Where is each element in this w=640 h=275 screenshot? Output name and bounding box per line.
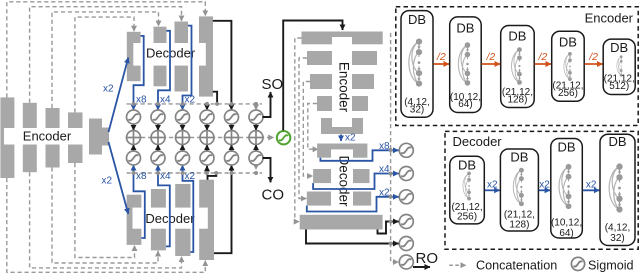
svg-text:x2: x2 [103, 84, 114, 95]
black wire B4 top to concat row [208, 174, 217, 180]
svg-text:x8: x8 [136, 171, 147, 182]
svg-text:32): 32) [610, 233, 624, 244]
svg-text:x2: x2 [102, 176, 113, 187]
DB encoder panel border [396, 7, 638, 126]
top decoder bar D3 [175, 22, 189, 92]
DB block E3 [501, 26, 535, 108]
svg-text:DB: DB [608, 134, 626, 149]
net2 encoder bar 2 [307, 51, 377, 65]
svg-text:128): 128) [509, 219, 529, 230]
net2 encoder bar 1 [302, 32, 383, 45]
encoder label box [4, 128, 89, 145]
/2 downsample arrow 1 [434, 63, 450, 65]
net2 skip connection enc3 to dec bar2 [303, 82, 312, 177]
DB block E2 [450, 17, 482, 113]
svg-text:DB: DB [508, 29, 526, 44]
CO output wire [263, 158, 271, 182]
DB block F4 [600, 134, 635, 246]
skip connection enc3 to top decoder D2 [52, 12, 159, 108]
dashed concat wire bottom row [127, 172, 262, 174]
junction dots bottom concat row [132, 171, 259, 175]
svg-text:DB: DB [610, 40, 628, 55]
svg-text:DB: DB [558, 139, 576, 154]
svg-text:/2: /2 [538, 51, 548, 63]
DB block E5 [603, 39, 635, 94]
top decoder label box [133, 43, 206, 66]
DB decoder panel border [445, 131, 638, 249]
encoder bar e3 [46, 108, 60, 168]
svg-text:x2: x2 [487, 179, 498, 190]
svg-text:x4: x4 [160, 171, 171, 182]
svg-text:x8: x8 [136, 95, 147, 106]
svg-text:512): 512) [609, 81, 629, 92]
blue wire x2 from D3 [183, 26, 192, 110]
green node output wire to network2 [283, 21, 342, 131]
svg-text:RO: RO [416, 250, 439, 267]
net2 output sigmoid circles [399, 143, 413, 157]
DB block F3 [551, 139, 583, 239]
svg-text:CO: CO [262, 187, 285, 204]
skip connection enc4 to bottom decoder B1 [75, 163, 135, 258]
net2 decoder bar 3 [307, 192, 371, 206]
blue wire x8 from B1 [134, 165, 145, 238]
dashed concat wire top row [127, 103, 262, 105]
net2 concat dashed vertical wire [391, 33, 399, 262]
skip connection enc2 to top decoder D3 [30, 7, 182, 103]
black wire D4 bottom to concat row [213, 92, 217, 103]
svg-text:Encoder: Encoder [337, 62, 352, 113]
net2 decoder bar 1 [317, 144, 367, 158]
green sigmoid node [277, 131, 290, 144]
net2 decoder bar 2 [313, 169, 369, 183]
svg-text:x2: x2 [185, 95, 196, 106]
svg-text:DB: DB [510, 150, 528, 165]
bottom decoder label box [133, 208, 208, 229]
/2 downsample arrow 3 [535, 63, 551, 65]
DB block F2 [500, 149, 538, 231]
DB block E4 [552, 31, 585, 101]
svg-text:Decoder: Decoder [453, 134, 503, 149]
skip connection enc2 to bottom decoder B3 [30, 172, 182, 268]
svg-text:32): 32) [410, 104, 424, 115]
encoder bar e4 [68, 112, 83, 163]
svg-text:x4: x4 [160, 95, 171, 106]
svg-text:/2: /2 [588, 51, 598, 63]
feed arrow column6 top [255, 104, 257, 110]
x2 upsample arrow 1 [485, 189, 500, 191]
svg-text:x2: x2 [379, 188, 390, 199]
net2 encoder bar 5 [321, 118, 363, 134]
net2 skip connection enc1 to dec bar4 [295, 38, 302, 222]
svg-text:x4: x4 [379, 164, 390, 175]
encoder bar e5 [89, 119, 102, 155]
legend concatenation arrow [449, 264, 466, 266]
svg-text:x2: x2 [345, 133, 356, 144]
bottom decoder bar B4 [199, 180, 214, 260]
/2 downsample arrow 2 [482, 63, 500, 65]
svg-text:DB: DB [408, 12, 426, 27]
RO output arrow [413, 266, 430, 268]
/2 downsample arrow 4 [585, 63, 603, 65]
svg-text:64): 64) [559, 228, 573, 239]
x2 upsample arrow 3 [583, 189, 600, 191]
net2 black wire dec bar4 right to circle [378, 222, 399, 234]
bottom decoder bar B1 [127, 195, 142, 245]
net2 skip connection enc4 to dec bar1 [308, 104, 318, 150]
svg-text:256): 256) [558, 88, 578, 99]
feed arrow column4 bottom [206, 166, 208, 173]
svg-text:64): 64) [458, 99, 472, 110]
net2 encoder bar 3 [310, 74, 374, 89]
svg-text:Concatenation: Concatenation [476, 259, 557, 273]
svg-text:x8: x8 [379, 141, 390, 152]
net2 black wire dec bar4 bottom to circle [306, 230, 399, 244]
net2 blue wire x4 from dec bar2 [313, 174, 398, 190]
svg-text:DB: DB [456, 21, 474, 36]
legend sigmoid icon [571, 257, 584, 270]
net2 skip connection enc2 to dec bar3 [299, 58, 307, 199]
blue wire x2 from B3 [183, 165, 194, 252]
svg-text:/2: /2 [486, 51, 496, 63]
svg-text:DB: DB [458, 157, 476, 172]
svg-text:Decoder: Decoder [337, 155, 352, 207]
skip connection enc1 to top decoder D4 [7, 2, 206, 98]
black wire D4 top to column5 [213, 21, 232, 110]
SO output wire [263, 92, 271, 117]
encoder output tab [102, 128, 109, 146]
net2 encoder label strip [332, 37, 352, 127]
svg-text:/2: /2 [436, 51, 446, 63]
sigmoid circles top row [127, 110, 141, 124]
net2 decoder label strip [331, 149, 353, 213]
encoder bar e1 [0, 97, 14, 178]
blue wire x8 from D1 [134, 36, 144, 110]
bottom decoder bar B3 [175, 184, 190, 256]
net2 upsample x2 arrow [340, 135, 342, 142]
feed arrow column4 top [206, 104, 208, 110]
skip connection enc3 to bottom decoder B2 [52, 168, 158, 264]
bottom decoder bar B2 [151, 189, 166, 250]
DB block F1 [450, 156, 485, 224]
svg-text:x2: x2 [185, 171, 196, 182]
svg-text:Decoder: Decoder [146, 45, 196, 60]
net2 junction dots [389, 148, 393, 246]
svg-text:SO: SO [262, 76, 284, 93]
dashed concat wire plus row [127, 137, 274, 139]
blue wire x4 from B2 [158, 165, 170, 246]
sigmoid circles bottom row [127, 151, 141, 165]
inter-row arrows sigmoid to plus [134, 124, 257, 131]
plus circles row [126, 130, 141, 145]
net2 decoder bar 4 [300, 215, 383, 230]
upsample x2 wire to top decoder [109, 58, 129, 133]
svg-text:Sigmoid: Sigmoid [588, 259, 634, 273]
skip connection enc1 to bottom decoder B4 [7, 178, 206, 272]
net2 blue wire x2 from dec bar3 [307, 197, 399, 212]
svg-text:Encoder: Encoder [585, 11, 634, 26]
top decoder bar D4 [199, 16, 213, 96]
svg-text:DB: DB [559, 34, 577, 49]
x2 upsample arrow 2 [539, 189, 550, 191]
inter-row arrows bottom sigmoid to plus [134, 145, 257, 152]
svg-text:Encoder: Encoder [23, 129, 72, 144]
svg-text:x2: x2 [539, 179, 550, 190]
upsample x2 wire to bottom decoder [109, 142, 129, 214]
junction dots top concat row [132, 102, 259, 106]
svg-text:256): 256) [457, 212, 477, 223]
skip connection enc4 to top decoder D1 [75, 17, 134, 112]
svg-text:(10,12,: (10,12, [551, 217, 582, 228]
black wire B4 bottom to column5 [214, 165, 232, 253]
top decoder bar D1 [127, 32, 141, 81]
net2 encoder bar 4 [317, 96, 368, 111]
DB block E1 [401, 11, 433, 118]
top decoder bar D2 [154, 27, 167, 87]
svg-text:x2: x2 [586, 179, 597, 190]
feed arrow column6 bottom [255, 165, 257, 170]
encoder bar e2 [23, 103, 37, 172]
net2 blue wire x8 from dec bar1 [320, 150, 398, 161]
svg-text:128): 128) [507, 94, 527, 105]
svg-text:(4,12,: (4,12, [605, 222, 631, 233]
blue wire x4 from D2 [158, 31, 170, 110]
